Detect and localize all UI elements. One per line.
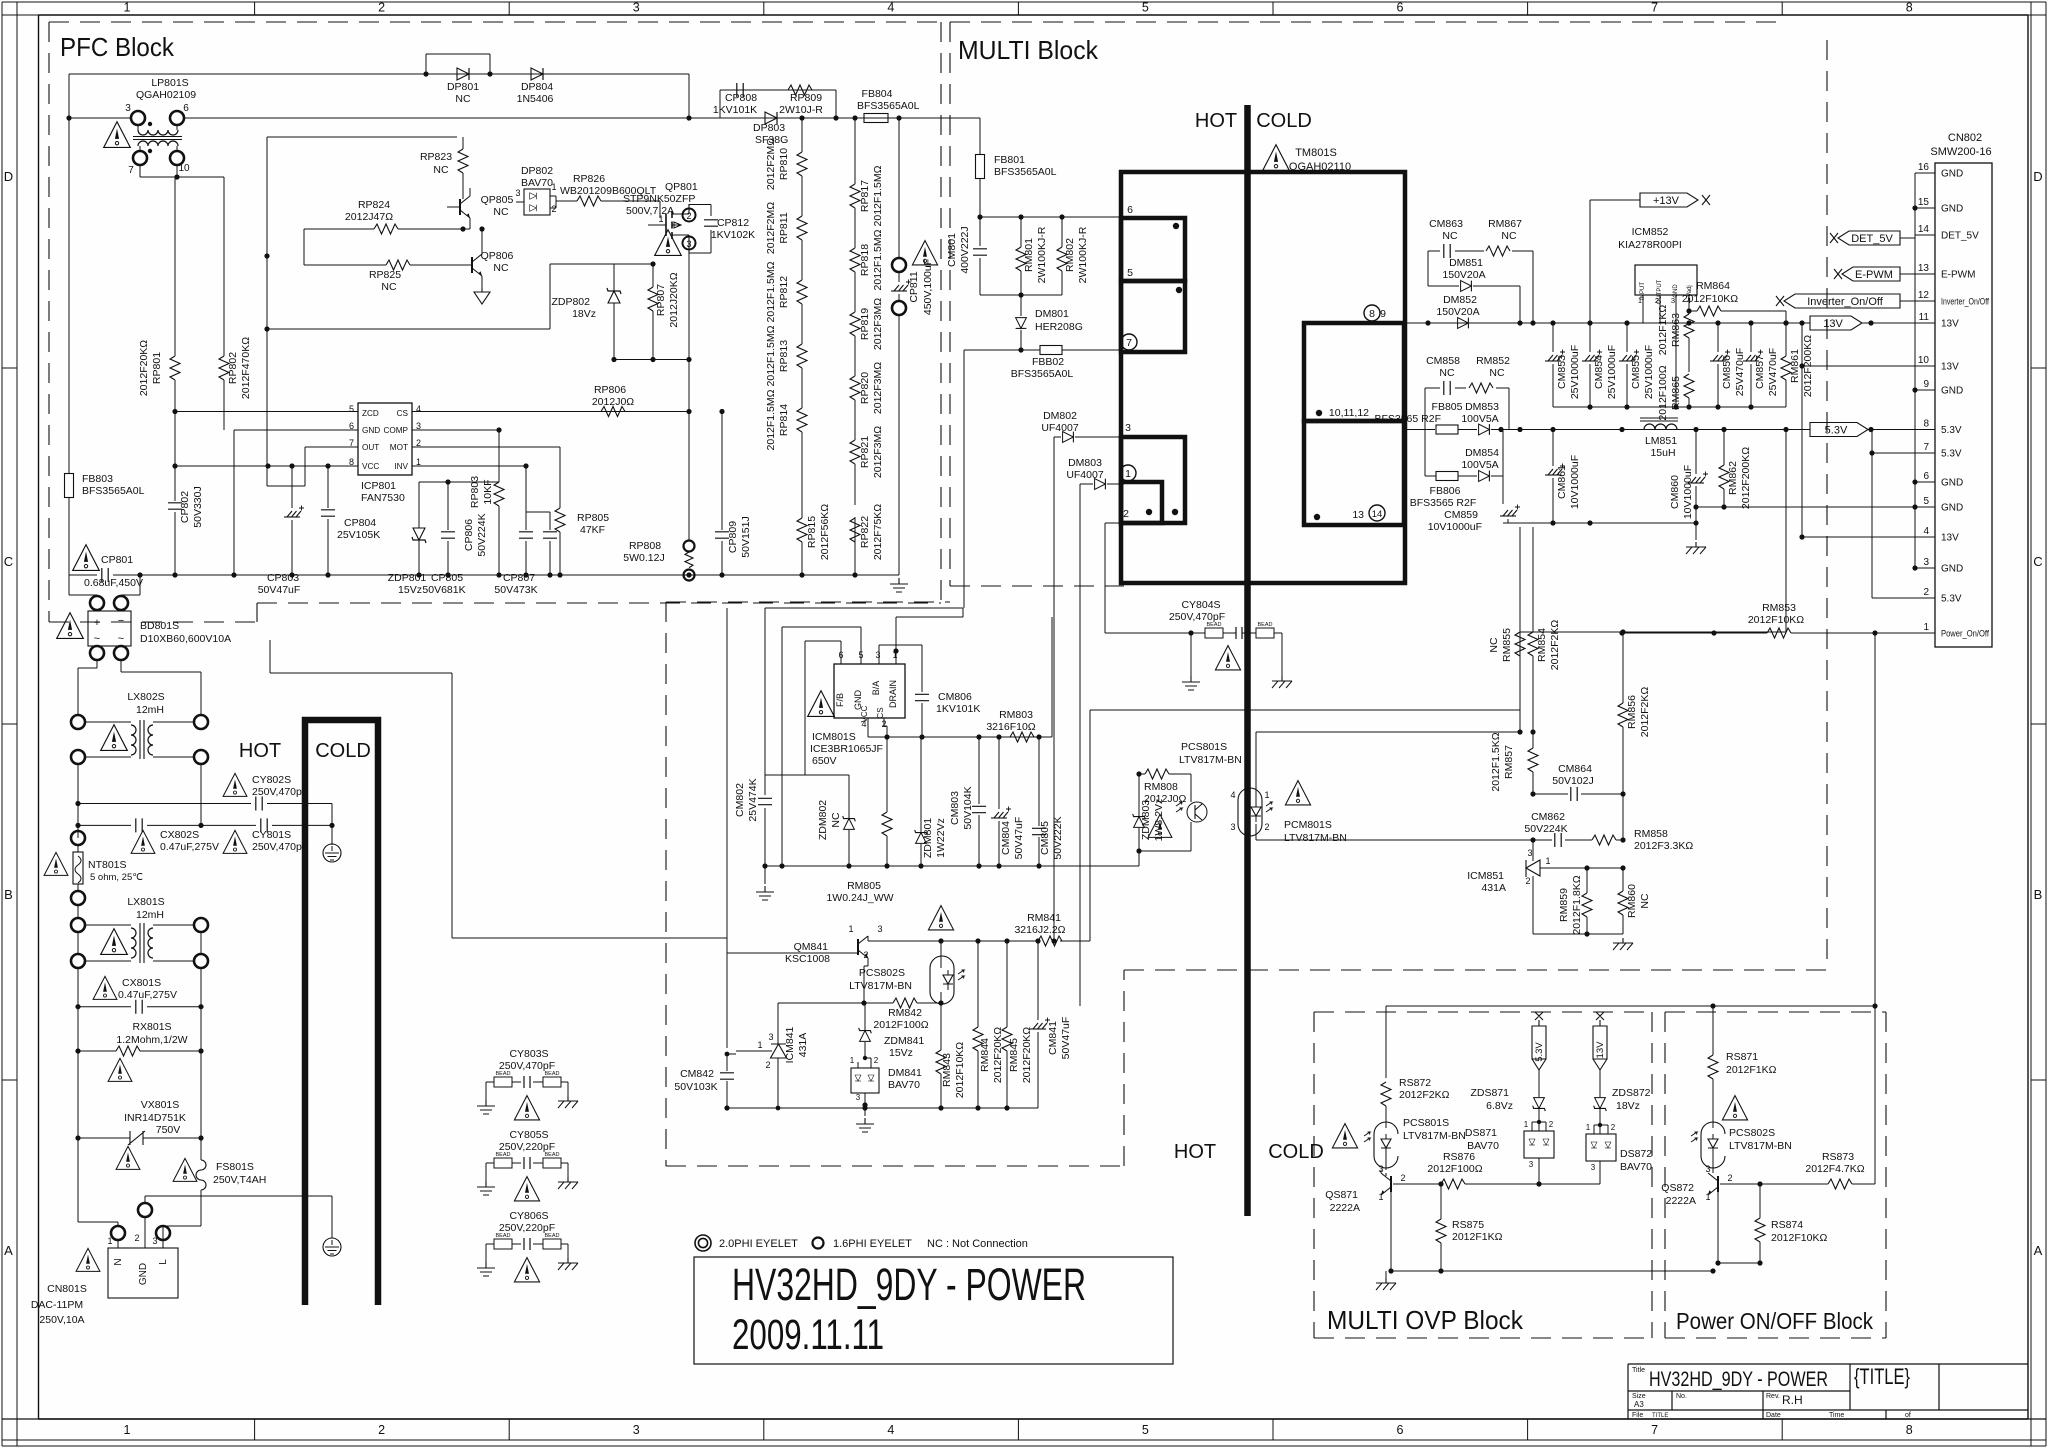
- svg-text:2012F1KΩ: 2012F1KΩ: [1726, 1064, 1777, 1076]
- svg-text:DM854: DM854: [1465, 447, 1499, 459]
- resistor RM867: [1486, 246, 1510, 256]
- svg-text:FBB02: FBB02: [1032, 356, 1064, 368]
- resistor RP802: [219, 356, 229, 380]
- svg-text:7: 7: [128, 165, 134, 176]
- svg-text:HOT: HOT: [1174, 1141, 1216, 1163]
- svg-text:FB806: FB806: [1430, 485, 1461, 497]
- svg-text:GND: GND: [1941, 564, 1963, 575]
- wire QM841 collector rail: [868, 936, 1090, 941]
- legend 2.0PHI eyelet: [695, 1235, 711, 1251]
- svg-text:CP806: CP806: [463, 519, 475, 551]
- svg-text:150V20A: 150V20A: [1436, 306, 1479, 318]
- resistor RM862: [1719, 465, 1729, 489]
- svg-text:3216F10Ω: 3216F10Ω: [986, 721, 1035, 733]
- svg-text:DM801: DM801: [1035, 308, 1069, 320]
- wire ICM801S pin connections: [765, 641, 841, 775]
- svg-text:25V470uF: 25V470uF: [1767, 348, 1779, 396]
- svg-text:2012F1KΩ: 2012F1KΩ: [1452, 1231, 1503, 1243]
- svg-text:500V,7.2A: 500V,7.2A: [626, 205, 674, 217]
- svg-text:RM856: RM856: [1626, 695, 1638, 729]
- warning triangle VX801S: [116, 1146, 140, 1169]
- capacitor CP804: [327, 466, 329, 575]
- svg-text:NC: NC: [830, 812, 842, 828]
- wire pin2 down to CY804S: [1105, 523, 1191, 633]
- svg-text:RP808: RP808: [629, 540, 661, 552]
- svg-text:2012F3MΩ: 2012F3MΩ: [872, 426, 884, 478]
- svg-text:15Vz: 15Vz: [889, 1047, 913, 1059]
- svg-text:1KV101K: 1KV101K: [713, 104, 757, 116]
- svg-text:RM858: RM858: [1634, 828, 1668, 840]
- wire ICP801 CS row: [412, 411, 689, 413]
- svg-text:RS874: RS874: [1771, 1219, 1803, 1231]
- svg-text:CX802S: CX802S: [160, 829, 199, 841]
- svg-text:HER208G: HER208G: [1035, 321, 1083, 333]
- transistor QM841 emitter wire: [864, 958, 868, 1003]
- svg-text:6: 6: [1127, 204, 1133, 216]
- svg-text:NC: NC: [1439, 367, 1455, 379]
- warning triangle CX801S: [93, 976, 117, 999]
- wire secondary ground rail: [1503, 522, 1553, 524]
- svg-text:CM804: CM804: [1000, 821, 1012, 855]
- wire QS872 emitter down: [1717, 1192, 1719, 1263]
- CN802 pin 12 Inverter_On/Off: [1915, 300, 1935, 302]
- capacitor CM858 RM852 loop: [1425, 388, 1509, 430]
- svg-text:RM803: RM803: [999, 709, 1033, 721]
- svg-text:NC: NC: [1501, 230, 1517, 242]
- CN802 pin 3 GND: [1915, 567, 1935, 569]
- svg-text:2012F1.5MΩ: 2012F1.5MΩ: [765, 389, 777, 450]
- diode DM854: [1479, 471, 1490, 482]
- svg-text:1: 1: [1638, 296, 1642, 305]
- svg-text:DS872: DS872: [1620, 1148, 1652, 1160]
- svg-text:1: 1: [757, 1040, 762, 1050]
- svg-text:HV32HD_9DY - POWER: HV32HD_9DY - POWER: [732, 1259, 1086, 1310]
- svg-text:CM860: CM860: [1669, 475, 1681, 509]
- TM801S lower primary boxes: [1121, 437, 1185, 523]
- wire CN802 13V links: [1802, 323, 1915, 537]
- svg-text:A: A: [2034, 1243, 2043, 1258]
- capacitor CM803: [978, 737, 980, 866]
- svg-text:RM862: RM862: [1727, 461, 1739, 495]
- wire top rail y74 with DP801/DP804: [69, 54, 689, 118]
- resistor RM808: [1145, 769, 1169, 779]
- warning triangle PCS801S: [1148, 814, 1172, 837]
- svg-text:1W0.24J_WW: 1W0.24J_WW: [826, 892, 893, 904]
- resistor RX801S: [78, 1007, 201, 1051]
- MULTI OVP Block dashed outline: [1314, 1012, 1652, 1338]
- svg-text:2W10J-R: 2W10J-R: [779, 104, 823, 116]
- svg-text:1: 1: [1378, 1192, 1383, 1202]
- svg-text:250V,470pF: 250V,470pF: [252, 786, 308, 798]
- svg-text:50V47uF: 50V47uF: [258, 584, 301, 596]
- wire x964 to ICM drain area: [765, 608, 963, 651]
- svg-text:RM841: RM841: [1027, 912, 1061, 924]
- svg-text:QP801: QP801: [665, 181, 698, 193]
- svg-text:CP802: CP802: [179, 491, 191, 523]
- svg-text:CX801S: CX801S: [122, 977, 161, 989]
- svg-text:GND: GND: [1941, 503, 1963, 514]
- warning triangle CY803S: [514, 1096, 539, 1120]
- resistor RM803: [1010, 732, 1034, 742]
- svg-text:LM851: LM851: [1645, 435, 1677, 447]
- svg-text:BFS3565A0L: BFS3565A0L: [82, 485, 145, 497]
- svg-text:2: 2: [551, 204, 556, 214]
- svg-text:2: 2: [1923, 587, 1929, 598]
- svg-text:FB804: FB804: [862, 88, 893, 100]
- svg-text:ICM841: ICM841: [784, 1026, 796, 1063]
- svg-text:D10XB60,600V10A: D10XB60,600V10A: [140, 633, 231, 645]
- capacitor CP805: [419, 482, 448, 575]
- svg-text:25V105K: 25V105K: [337, 529, 380, 541]
- ground open triangle below QP806: [474, 288, 490, 304]
- warning triangle CY801S: [223, 830, 247, 853]
- svg-text:COLD: COLD: [1268, 1141, 1324, 1163]
- svg-text:1: 1: [1524, 1120, 1529, 1129]
- eyelets AC chain: [71, 891, 85, 905]
- svg-text:2: 2: [765, 1060, 770, 1070]
- resistor RP823: [458, 149, 468, 173]
- transistor QP806: [472, 254, 482, 276]
- svg-text:CM841: CM841: [1047, 1021, 1059, 1055]
- svg-text:RS876: RS876: [1443, 1151, 1475, 1163]
- svg-text:BEAD: BEAD: [545, 1071, 560, 1077]
- wire ICM841 bottom rail: [727, 1107, 1038, 1109]
- svg-text:VX801S: VX801S: [141, 1099, 180, 1111]
- svg-text:RM855: RM855: [1501, 628, 1513, 662]
- svg-text:RP809: RP809: [790, 92, 822, 104]
- capacitor CX801S: [78, 1006, 201, 1008]
- svg-text:LTV817M-BN: LTV817M-BN: [849, 980, 912, 992]
- wire long vertical to QM841 base: [727, 608, 858, 953]
- svg-text:1: 1: [124, 1423, 131, 1437]
- resistor RP806: [601, 407, 625, 417]
- svg-text:CM859: CM859: [1444, 509, 1478, 521]
- wire PCM801S feedback loop: [1256, 732, 1533, 840]
- svg-text:2012F20KΩ: 2012F20KΩ: [138, 340, 150, 396]
- warning triangle above PCS802S: [928, 906, 953, 930]
- resistor RM841: [1038, 936, 1062, 946]
- diode DM853: [1479, 424, 1490, 435]
- wire ICP801 MOT row: [412, 447, 560, 508]
- resistor RP807: [648, 287, 658, 311]
- svg-text:10KF: 10KF: [482, 479, 494, 504]
- resistor RM864: [1689, 311, 1786, 323]
- svg-text:LTV817M-BN: LTV817M-BN: [1284, 832, 1347, 844]
- capacitor CP811 with eyelets: [892, 258, 906, 272]
- wire ICP801 VCC row: [175, 465, 358, 467]
- svg-text:2222A: 2222A: [1666, 1195, 1696, 1207]
- diode DM851: [1461, 281, 1472, 292]
- svg-text:2: 2: [378, 1, 385, 15]
- inductor LM851: [1644, 424, 1677, 430]
- svg-text:RP805: RP805: [577, 512, 609, 524]
- resistor RP826: [577, 196, 601, 206]
- svg-text:CM801: CM801: [946, 233, 958, 267]
- svg-text:DP802: DP802: [521, 165, 553, 177]
- svg-text:LP801S: LP801S: [151, 77, 188, 89]
- wire RM855/RM854 up to ground rail: [1520, 527, 1533, 632]
- resistor RS871: [1708, 1055, 1718, 1079]
- svg-text:2W100KJ-R: 2W100KJ-R: [1077, 226, 1089, 283]
- svg-text:2012F3MΩ: 2012F3MΩ: [872, 298, 884, 350]
- svg-text:of: of: [1905, 1412, 1911, 1419]
- svg-text:RM801: RM801: [1023, 238, 1035, 272]
- big title box: [694, 1257, 1173, 1364]
- svg-text:BFS3565 R2F: BFS3565 R2F: [1410, 497, 1477, 509]
- svg-text:RM864: RM864: [1696, 280, 1730, 292]
- svg-text:Title: Title: [1632, 1367, 1645, 1374]
- svg-text:COMP: COMP: [383, 426, 408, 435]
- svg-text:RP819: RP819: [859, 308, 871, 340]
- fuse FB803: [68, 118, 70, 575]
- +13V flag: [1590, 200, 1640, 323]
- svg-text:RM843: RM843: [941, 1053, 953, 1087]
- svg-text:2: 2: [1611, 1123, 1616, 1132]
- wire ICP801 GND row: [234, 430, 358, 575]
- svg-text:ICP801: ICP801: [361, 480, 396, 492]
- svg-text:5.3V: 5.3V: [1941, 594, 1962, 605]
- transistor QM841: [858, 936, 868, 958]
- svg-text:SMW200-16: SMW200-16: [1930, 146, 1991, 158]
- svg-text:CM802: CM802: [734, 783, 746, 817]
- resistor RM802: [1057, 247, 1067, 271]
- warning triangle CY804S: [1215, 646, 1240, 670]
- wire QS871 emitter to rail: [1386, 1173, 1391, 1271]
- zener ZDM803: [1133, 814, 1146, 828]
- svg-text:No.: No.: [1676, 1393, 1687, 1400]
- svg-text:4: 4: [1230, 790, 1235, 800]
- earth ground right of CY801S: [331, 825, 333, 845]
- svg-text:3: 3: [686, 239, 691, 249]
- warning triangle PCS801S OVP: [1332, 1124, 1357, 1148]
- svg-text:2: 2: [378, 1423, 385, 1437]
- TM801S primary winding boxes: [1121, 218, 1185, 281]
- svg-text:250V,10A: 250V,10A: [39, 1314, 84, 1326]
- svg-text:4: 4: [861, 719, 866, 729]
- svg-text:2012F10KΩ: 2012F10KΩ: [1771, 1232, 1827, 1244]
- svg-text:3: 3: [1230, 822, 1235, 832]
- svg-text:NC: NC: [455, 93, 471, 105]
- svg-text:3: 3: [633, 1423, 640, 1437]
- svg-text:5.3V: 5.3V: [1941, 425, 1962, 436]
- svg-text:1: 1: [658, 214, 663, 224]
- svg-text:400V222J: 400V222J: [959, 226, 971, 273]
- warning triangle CP801: [73, 545, 100, 571]
- svg-text:HV32HD_9DY - POWER: HV32HD_9DY - POWER: [1649, 1368, 1828, 1391]
- svg-text:1.2Mohm,1/2W: 1.2Mohm,1/2W: [116, 1034, 187, 1046]
- svg-text:10,11,12: 10,11,12: [1329, 407, 1369, 419]
- svg-text:50V102J: 50V102J: [1552, 775, 1593, 787]
- svg-text:2012J47Ω: 2012J47Ω: [345, 211, 393, 223]
- svg-text:4: 4: [887, 1423, 894, 1437]
- svg-text:2.0PHI EYELET: 2.0PHI EYELET: [719, 1238, 798, 1250]
- capacitor CM861 electrolytic: [1552, 430, 1554, 524]
- svg-text:ZDM801: ZDM801: [922, 818, 934, 858]
- svg-text:L: L: [158, 1259, 169, 1265]
- wire ICM852 pins: [1643, 295, 1689, 330]
- warning triangle RX801S: [108, 1058, 132, 1081]
- resistor chain RP817-RP821: [854, 118, 856, 184]
- svg-text:PCS802S: PCS802S: [859, 967, 905, 979]
- svg-text:BEAD: BEAD: [1258, 622, 1273, 628]
- svg-text:CP809: CP809: [727, 521, 739, 553]
- svg-text:MULTI OVP Block: MULTI OVP Block: [1327, 1305, 1524, 1335]
- svg-text:0.47uF,275V: 0.47uF,275V: [118, 989, 177, 1001]
- svg-text:2012F1.8KΩ: 2012F1.8KΩ: [1571, 875, 1583, 934]
- wire ICM851 bottom rail: [1533, 933, 1623, 935]
- svg-text:47KF: 47KF: [580, 524, 605, 536]
- svg-text:Inverter_On/Off: Inverter_On/Off: [1941, 297, 1989, 308]
- svg-text:2012F1KΩ: 2012F1KΩ: [1657, 305, 1669, 356]
- svg-text:GND: GND: [362, 426, 380, 435]
- svg-text:DM803: DM803: [1068, 457, 1102, 469]
- resistor RM859: [1582, 893, 1592, 917]
- svg-text:5: 5: [1142, 1423, 1149, 1437]
- svg-text:2012F3MΩ: 2012F3MΩ: [872, 362, 884, 414]
- svg-text:3: 3: [1527, 848, 1532, 858]
- svg-text:A3: A3: [1634, 1400, 1644, 1409]
- wire PFC HOT return from left: [270, 640, 727, 938]
- resistor RM857: [1528, 748, 1538, 772]
- svg-text:BD801S: BD801S: [140, 620, 179, 632]
- svg-text:6: 6: [183, 103, 189, 114]
- svg-text:R.H: R.H: [1782, 1393, 1803, 1407]
- svg-text:5: 5: [349, 404, 354, 414]
- svg-text:CY803S: CY803S: [509, 1048, 548, 1060]
- capacitor CP807: [526, 512, 550, 575]
- svg-text:CM857: CM857: [1754, 355, 1766, 389]
- fuse FB804: [864, 114, 888, 123]
- svg-text:450V,100uF: 450V,100uF: [922, 259, 934, 315]
- svg-text:RM867: RM867: [1488, 218, 1522, 230]
- wire RM855/854 top rail to RM853 node: [1520, 631, 1623, 633]
- svg-text:CM853: CM853: [1556, 355, 1568, 389]
- wire OVP bottom rail: [1391, 1270, 1713, 1272]
- resistor RP822: [850, 518, 860, 542]
- wire ONOFF bottom rail: [1718, 1262, 1760, 1264]
- warning triangle ICM801S: [808, 691, 835, 717]
- svg-text:BFS3565A0L: BFS3565A0L: [994, 166, 1057, 178]
- svg-text:ZCD: ZCD: [362, 409, 379, 418]
- svg-text:CY802S: CY802S: [252, 774, 291, 786]
- CN802 pin 1 Power_On/Off: [1915, 632, 1935, 634]
- svg-text:431A: 431A: [797, 1033, 809, 1058]
- svg-text:RM860: RM860: [1626, 884, 1638, 918]
- CN802 pin 9 GND: [1915, 389, 1935, 391]
- capacitor CM802: [764, 608, 766, 866]
- svg-text:DM853: DM853: [1465, 401, 1499, 413]
- svg-text:2012F10KΩ: 2012F10KΩ: [954, 1042, 966, 1098]
- diode DM852: [1458, 318, 1469, 329]
- resistor RM843: [936, 1050, 946, 1074]
- svg-text:LTV817M-BN: LTV817M-BN: [1403, 1130, 1466, 1142]
- svg-text:2: 2: [1549, 1120, 1554, 1129]
- svg-text:CY804S: CY804S: [1181, 599, 1220, 611]
- row ruler ticks and letters: [2, 368, 2046, 1080]
- svg-text:CM862: CM862: [1531, 811, 1565, 823]
- svg-text:VCC: VCC: [362, 462, 379, 471]
- svg-text:2: 2: [1655, 296, 1659, 305]
- svg-text:2: 2: [1123, 508, 1129, 520]
- svg-text:QM841: QM841: [794, 941, 829, 953]
- svg-text:CM805: CM805: [1039, 821, 1051, 855]
- svg-text:4: 4: [887, 1, 894, 15]
- svg-text:2012F10KΩ: 2012F10KΩ: [1682, 293, 1738, 305]
- warning triangle CY805S: [514, 1177, 539, 1201]
- wire RM801/RM802 bottom join: [980, 294, 1062, 296]
- svg-text:7: 7: [1651, 1, 1658, 15]
- svg-text:RM859: RM859: [1558, 888, 1570, 922]
- svg-text:1: 1: [1705, 1192, 1710, 1202]
- svg-text:2012F1.5MΩ: 2012F1.5MΩ: [872, 229, 884, 290]
- svg-text:8: 8: [1369, 308, 1375, 320]
- thermistor NT801S: [71, 831, 85, 845]
- svg-text:RM852: RM852: [1476, 355, 1510, 367]
- svg-text:Inverter_On/Off: Inverter_On/Off: [1807, 296, 1884, 308]
- ground symbol primary rail: [764, 866, 766, 884]
- svg-text:1KV101K: 1KV101K: [936, 703, 980, 715]
- wire QS872 base row RS873: [1720, 1183, 1760, 1185]
- zener ZDM801: [915, 830, 928, 844]
- resistor RM801: [1016, 247, 1026, 271]
- warning triangle CP811: [912, 241, 937, 265]
- svg-text:CP812: CP812: [717, 217, 749, 229]
- svg-text:5W0.12J: 5W0.12J: [623, 552, 664, 564]
- svg-text:NC: NC: [1488, 637, 1500, 653]
- capacitor CM854 electrolytic: [1589, 323, 1591, 407]
- svg-text:RS872: RS872: [1399, 1077, 1431, 1089]
- svg-text:25V1000uF: 25V1000uF: [1643, 345, 1655, 399]
- svg-text:MULTI Block: MULTI Block: [958, 35, 1099, 65]
- wire RM856 top to 13V: [1623, 430, 1786, 633]
- svg-text:RP821: RP821: [859, 436, 871, 468]
- svg-text:DRAIN: DRAIN: [888, 680, 898, 708]
- svg-text:10V1000uF: 10V1000uF: [1428, 521, 1482, 533]
- capacitor CM857 electrolytic: [1750, 323, 1752, 407]
- zener ZDM802: [843, 816, 856, 830]
- svg-text:15: 15: [1918, 197, 1930, 208]
- svg-text:6: 6: [1397, 1423, 1404, 1437]
- wire QP801 gate bottom rail: [550, 264, 689, 360]
- svg-text:2: 2: [134, 1233, 139, 1243]
- svg-text:50V47uF: 50V47uF: [1013, 817, 1025, 860]
- warning triangle BD801S: [57, 613, 84, 639]
- svg-text:MOT: MOT: [390, 443, 408, 452]
- svg-text:14: 14: [1372, 509, 1383, 520]
- dual diode DS871 BAV70: [1524, 1131, 1554, 1158]
- warning triangle CY806S: [514, 1258, 539, 1282]
- svg-text:CM864: CM864: [1558, 763, 1592, 775]
- svg-text:650V: 650V: [812, 755, 837, 767]
- svg-text:50V473K: 50V473K: [494, 584, 537, 596]
- svg-text:B/A: B/A: [871, 681, 881, 696]
- svg-text:10: 10: [1918, 355, 1930, 366]
- svg-text:INR14D751K: INR14D751K: [124, 1112, 186, 1124]
- resistor RP808 with eyelets: [684, 541, 695, 552]
- svg-text:5: 5: [1923, 496, 1929, 507]
- capacitor CM862 and resistor RM858: [1533, 794, 1623, 840]
- svg-text:CM854: CM854: [1593, 355, 1605, 389]
- wire ICP801 OUT row: [267, 447, 358, 486]
- diode DP804: [531, 68, 543, 80]
- svg-text:50V330J: 50V330J: [192, 486, 204, 527]
- resistor RS874: [1755, 1218, 1765, 1242]
- wire RM854 top to 13V rail: [1532, 596, 1534, 602]
- svg-text:ICM852: ICM852: [1632, 226, 1669, 238]
- svg-text:Rev.: Rev.: [1766, 1393, 1780, 1400]
- svg-text:250V,T4AH: 250V,T4AH: [213, 1174, 266, 1186]
- zener ZDS871: [1533, 1098, 1546, 1112]
